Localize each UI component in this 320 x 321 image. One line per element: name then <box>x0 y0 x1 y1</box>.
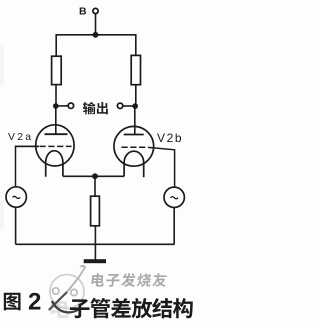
wire left grid lead <box>16 145 40 147</box>
svg-text:V2a: V2a <box>8 131 33 143</box>
wire Ra2 to right output node <box>135 85 137 106</box>
V2a grid (dashed) <box>40 145 72 147</box>
wire right grid lead <box>148 147 175 187</box>
wire bottom rail <box>16 243 175 245</box>
svg-text:V2b: V2b <box>157 131 183 145</box>
wire Rk to ground <box>94 226 96 260</box>
tube V2a envelope <box>36 125 74 166</box>
V2b anode plate <box>124 134 144 136</box>
wire cathode bus <box>63 175 124 177</box>
V2a anode plate <box>45 133 68 135</box>
terminal B (supply) <box>93 8 98 13</box>
wire right node to V2b anode <box>134 106 136 135</box>
wire left source top lead <box>16 146 39 186</box>
V2b grid (dashed) <box>122 146 149 148</box>
node right output junction <box>132 103 138 109</box>
wire cathode bus to Rk <box>94 176 96 197</box>
terminal left output <box>68 103 73 108</box>
terminal right output <box>117 103 122 108</box>
wire B terminal to top rail <box>95 14 97 35</box>
wire left node to V2a anode <box>55 106 57 134</box>
caption 图 <box>4 293 21 311</box>
scan artifact smudges <box>0 45 4 230</box>
ghost caption char 电 (washed out) <box>51 298 69 318</box>
ground <box>84 259 106 263</box>
junction dot cathode bus <box>92 173 98 179</box>
resistor Rk (common cathode) <box>91 196 100 226</box>
wire Ra1 to left output node <box>55 85 57 106</box>
V2b cathode <box>124 151 144 177</box>
wire right source bottom lead <box>173 208 175 245</box>
wire left source bottom lead <box>15 207 17 244</box>
source V2 (right AC input) <box>164 187 184 207</box>
label 输出 (output) <box>83 102 96 114</box>
source V1 (left AC input) <box>6 187 26 207</box>
svg-text:2: 2 <box>28 289 41 316</box>
junction dot top rail <box>93 32 99 38</box>
caption title 子管差放结构 <box>70 299 90 318</box>
resistor Ra2 (right anode load) <box>131 55 140 84</box>
wire right output terminal to node <box>123 105 135 107</box>
tube V2b envelope <box>114 126 154 166</box>
wire top rail <box>56 35 136 57</box>
watermark text 电子发烧友 <box>91 273 167 287</box>
svg-text:B: B <box>79 6 87 18</box>
resistor Ra1 (left anode load) <box>52 56 62 84</box>
wire to left output terminal <box>56 105 69 107</box>
V2a cathode <box>46 151 63 177</box>
node left output junction <box>53 103 59 109</box>
